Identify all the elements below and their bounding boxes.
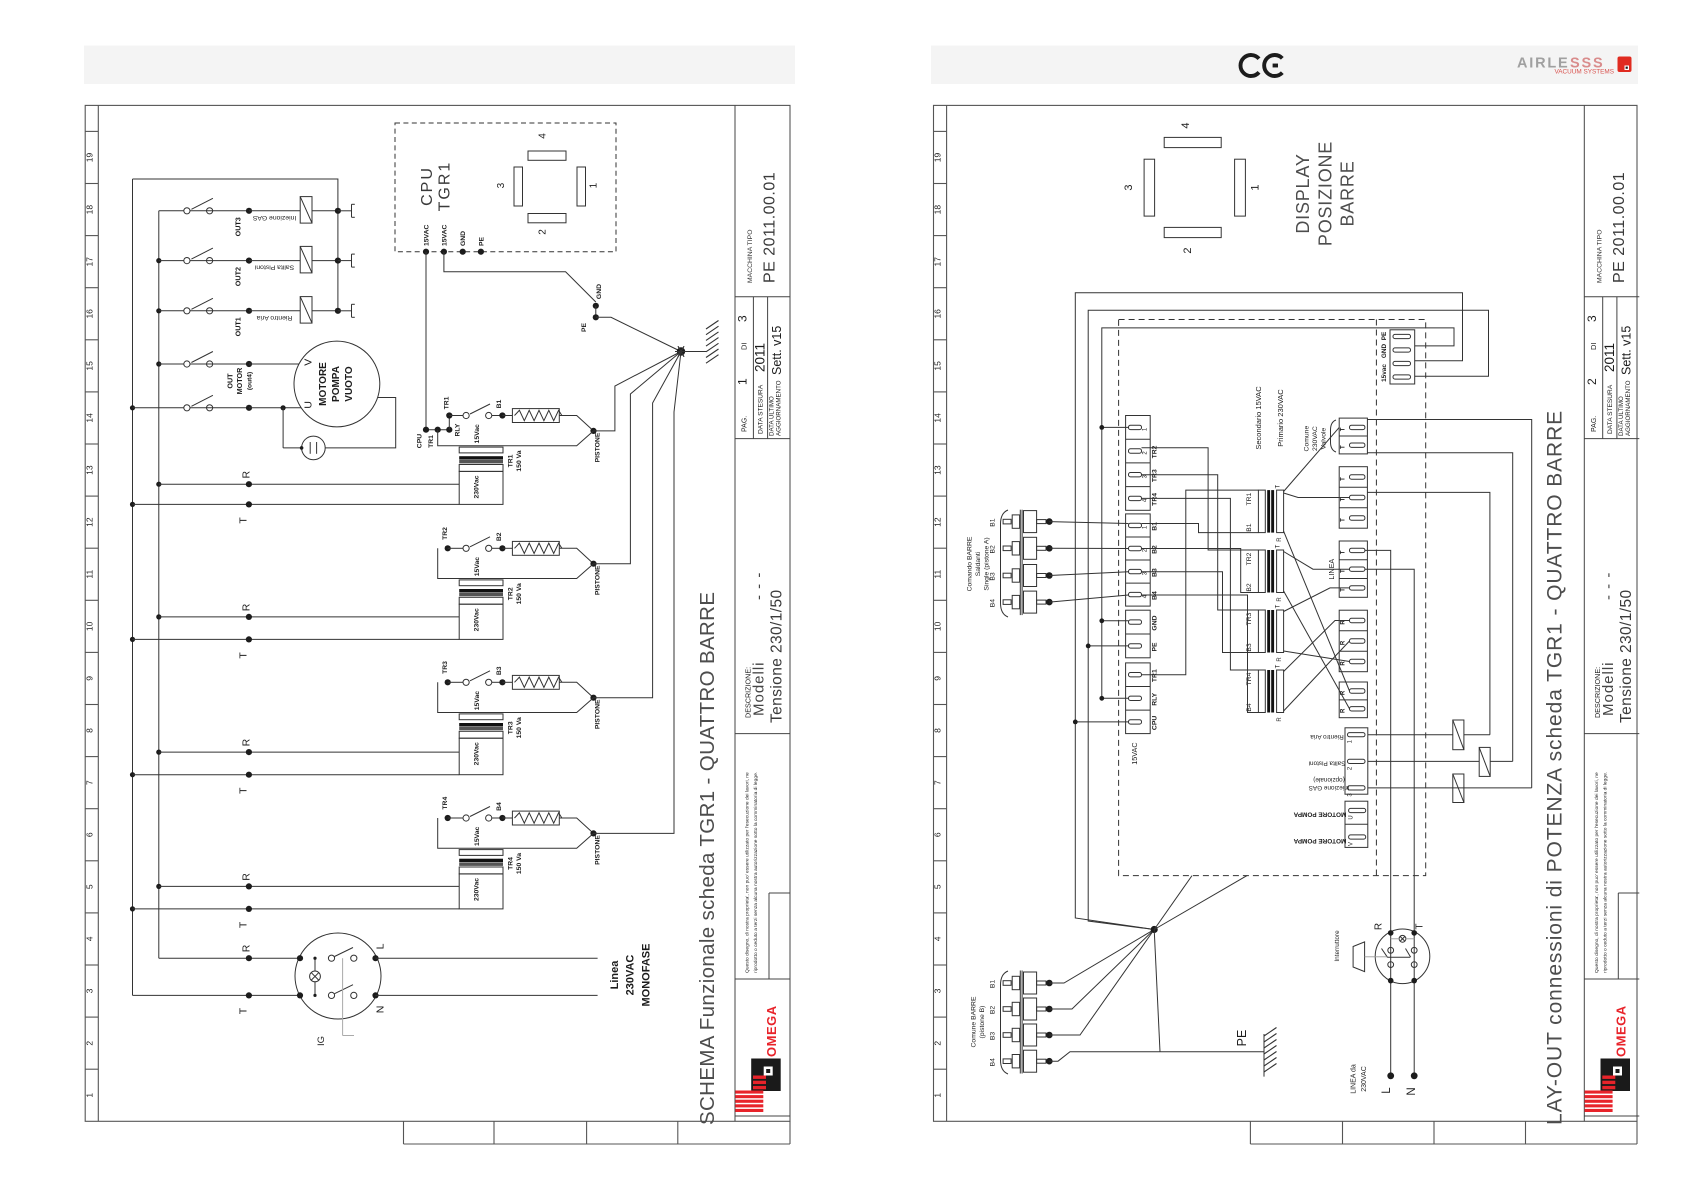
wire resistor to PISTONE node TR4 (559, 818, 593, 833)
svg-text:Linea: Linea (609, 960, 621, 990)
svg-text:15Vac: 15Vac (474, 691, 481, 710)
right page border frame (934, 105, 1638, 1121)
display segment 1 (right page) (1235, 159, 1246, 216)
svg-text:TR2: TR2 (507, 587, 514, 600)
svg-text:230Vac: 230Vac (473, 608, 480, 631)
svg-text:R: R (1341, 661, 1347, 666)
main switch IG (295, 933, 381, 1019)
svg-text:150 Va: 150 Va (516, 583, 523, 604)
svg-text:11: 11 (84, 570, 94, 579)
wire output 1 to fuse F1 (1368, 734, 1453, 736)
interruttore contacts (1388, 947, 1394, 953)
connector block TR2 TR3 TR4 (1126, 416, 1151, 511)
svg-text:T: T (1341, 550, 1347, 554)
node L (1387, 1072, 1394, 1079)
svg-text:U: U (303, 401, 315, 409)
title block disclaimer text (745, 772, 760, 973)
display segment 4 (left page) (528, 151, 566, 160)
transformer TR4 (right page) (1258, 670, 1265, 713)
relay switch TR1 15Vac (426, 429, 449, 431)
svg-text:15: 15 (84, 361, 94, 371)
svg-text:GND: GND (460, 231, 467, 246)
svg-text:MOTOR: MOTOR (235, 367, 244, 394)
valve connector group 4 (1339, 610, 1367, 672)
relay switch TR3 15Vac (445, 679, 451, 685)
svg-text:1: 1 (933, 1093, 943, 1098)
svg-text:TGR1: TGR1 (437, 161, 454, 212)
earth ground symbol (right page) (1263, 1034, 1265, 1077)
left page header bar (84, 46, 795, 85)
title block disclaimer text (1594, 772, 1609, 973)
svg-text:PE: PE (1152, 642, 1159, 652)
svg-text:DATA STESURA: DATA STESURA (758, 384, 765, 434)
svg-text:5: 5 (84, 884, 94, 889)
svg-text:4: 4 (933, 936, 943, 941)
node B2 (492, 547, 503, 549)
svg-text:B2: B2 (990, 1006, 997, 1015)
svg-text:Comune: Comune (1304, 426, 1311, 452)
svg-text:GND: GND (1152, 615, 1159, 630)
svg-text:13: 13 (933, 465, 943, 475)
svg-text:AGGIORNAMENTO: AGGIORNAMENTO (776, 380, 783, 436)
motor MOTORE POMPA VUOTO (294, 341, 380, 427)
svg-text:PE 2011.00.01: PE 2011.00.01 (762, 172, 779, 283)
transformer TR1 windings and core (459, 447, 503, 453)
switch row OUT2 (159, 260, 184, 262)
svg-text:OUT: OUT (226, 373, 235, 389)
wire R row to TR2 (159, 616, 459, 618)
wire resistor to PISTONE node TR2 (559, 548, 593, 563)
valve connector group 1 (Comune) (1339, 418, 1367, 454)
svg-text:B1: B1 (990, 518, 997, 527)
wire CPU cell to star (1075, 721, 1128, 723)
svg-text:GND: GND (1381, 344, 1388, 359)
switch row OUT MOTOR U (133, 407, 184, 409)
node N (1411, 1072, 1418, 1079)
wire L output (376, 957, 598, 959)
svg-text:2: 2 (538, 229, 549, 235)
wire pin1 to bus (1102, 426, 1129, 428)
wire TR1 T to valve group1 (1284, 427, 1340, 491)
svg-text:7: 7 (84, 780, 94, 785)
title block outer border (735, 105, 790, 1121)
svg-text:17: 17 (933, 257, 943, 267)
display segment 3 (right page) (1144, 159, 1155, 216)
wire B4 cell to transformer TR4 (1142, 595, 1259, 713)
svg-text:150 Va: 150 Va (516, 450, 523, 471)
wire TR4 R to valve group4 (1284, 641, 1350, 711)
wire TR4 pin to transformer TR4 (1142, 498, 1259, 670)
bus junction dots (130, 405, 135, 410)
svg-text:150 Va: 150 Va (516, 853, 523, 874)
connector MOTORE POMPA U V (1345, 801, 1368, 847)
svg-text:TR4: TR4 (1246, 672, 1253, 685)
transformer TR4 windings and core (459, 850, 503, 856)
relay coil Rientro Aria (249, 310, 300, 312)
svg-text:POMPA: POMPA (331, 366, 342, 402)
svg-text:OMEGA: OMEGA (764, 1005, 779, 1057)
svg-text:riprodotto o ceduto a terzi se: riprodotto o ceduto a terzi senza alcuna… (753, 772, 759, 973)
transformer TR2 windings and core (459, 580, 503, 586)
svg-text:N: N (375, 1006, 387, 1014)
svg-text:B4: B4 (990, 1058, 997, 1067)
svg-text:AGGIORNAMENTO: AGGIORNAMENTO (1625, 380, 1632, 436)
OMEGA logo (735, 1005, 780, 1112)
svg-text:TR2: TR2 (1246, 552, 1253, 565)
wire loop B star to 15vac connector (1088, 310, 1488, 929)
svg-text:DI: DI (740, 343, 749, 351)
CE mark (1240, 55, 1282, 76)
PISTONE node TR2 (590, 561, 596, 567)
relay switch TR4 15Vac (445, 815, 451, 821)
wire R row to IG switch (159, 957, 300, 959)
svg-text:15Vac: 15Vac (474, 424, 481, 443)
svg-text:B3: B3 (990, 572, 997, 581)
wire relay OUT2 to T bus (312, 260, 338, 262)
svg-text:PISTONE: PISTONE (595, 699, 602, 729)
svg-text:T: T (238, 787, 250, 794)
wire PE cell to star (1088, 645, 1128, 647)
svg-text:Saldanti: Saldanti (975, 551, 982, 576)
svg-text:150 Va: 150 Va (516, 717, 523, 738)
svg-text:4: 4 (1180, 123, 1192, 129)
svg-text:Tensione 230/1/50: Tensione 230/1/50 (1618, 590, 1635, 724)
svg-text:R: R (1277, 537, 1283, 542)
svg-text:MACCHINA TIPO: MACCHINA TIPO (1596, 229, 1603, 283)
connector block TR1 RLY CPU (1126, 663, 1151, 734)
svg-text:R: R (241, 738, 253, 746)
svg-text:19: 19 (84, 153, 94, 163)
svg-text:TR1: TR1 (1152, 669, 1159, 682)
transformer TR3 windings and core (459, 714, 503, 720)
svg-text:2: 2 (1182, 247, 1194, 253)
svg-text:OUT2: OUT2 (234, 267, 243, 286)
svg-text:MOTORE POMPA: MOTORE POMPA (1293, 811, 1346, 818)
wire R row to TR4 (159, 885, 459, 887)
wires plugs A to connector B1-B4 (1049, 522, 1128, 524)
svg-text:Questo disegno, di nostra prop: Questo disegno, di nostra proprieta', no… (745, 772, 751, 973)
svg-text:LINEA da: LINEA da (1351, 1064, 1358, 1094)
svg-text:TR2: TR2 (442, 527, 449, 540)
wire: top bus line (133, 179, 338, 311)
svg-text:CPU: CPU (417, 434, 424, 448)
svg-text:B3: B3 (990, 1032, 997, 1041)
wire T row to TR3 (133, 774, 460, 776)
fuse F3 (1453, 774, 1464, 803)
svg-text:PISTONE: PISTONE (595, 432, 602, 462)
svg-text:SCHEMA Funzionale scheda TG: SCHEMA Funzionale scheda TGR1 - QUATTRO … (696, 592, 719, 1125)
T terminal OUT1 (338, 310, 352, 312)
connector 15vac GND PE (1390, 330, 1415, 384)
svg-text:B3: B3 (1246, 643, 1253, 652)
wire B1 cell to transformer TR1 (1142, 524, 1259, 533)
wire TR3 R to valve group4 (1284, 651, 1350, 662)
svg-text:B3: B3 (1152, 568, 1159, 577)
svg-text:TR4: TR4 (507, 857, 514, 870)
svg-text:IG: IG (316, 1036, 327, 1046)
wire PISTONE TR3 riser to ground star (594, 352, 682, 698)
wire TR2 pin to transformer TR2 (1142, 448, 1259, 550)
svg-text:U: U (1349, 815, 1355, 819)
TGR1 board dashed outline (1119, 320, 1426, 876)
svg-text:10: 10 (933, 621, 943, 631)
wire valve group2 top to fuse loop (1367, 420, 1531, 788)
svg-text:- - -: - - - (1600, 572, 1617, 600)
display segment 2 (right page) (1164, 227, 1221, 237)
plug group brace (1001, 510, 1009, 617)
display segment 4 (right page) (1164, 137, 1221, 147)
svg-text:R: R (1277, 657, 1283, 662)
relay switch TR2 15Vac (445, 545, 451, 551)
wires board bottom to star (1154, 876, 1192, 930)
svg-text:Comando BARRE: Comando BARRE (967, 536, 974, 591)
wire output 2 to fuse F2 (1368, 760, 1479, 762)
valve connector group 2 (1339, 467, 1367, 529)
svg-text:17: 17 (84, 257, 94, 267)
svg-text:4: 4 (84, 936, 94, 941)
svg-text:Rientro Aria: Rientro Aria (1310, 733, 1344, 740)
svg-text:MACCHINA TIPO: MACCHINA TIPO (747, 229, 754, 283)
svg-text:3: 3 (1585, 315, 1599, 322)
svg-text:B2: B2 (990, 545, 997, 554)
svg-text:PE: PE (478, 236, 485, 246)
svg-text:B3: B3 (496, 666, 503, 675)
svg-text:riprodotto o ceduto a terzi se: riprodotto o ceduto a terzi senza alcuna… (1602, 772, 1608, 973)
svg-text:Secondario 15VAC: Secondario 15VAC (1254, 386, 1263, 450)
svg-text:LAY-OUT connessioni di POTE: LAY-OUT connessioni di POTENZA scheda TG… (1543, 410, 1566, 1125)
svg-text:3: 3 (933, 988, 943, 993)
svg-text:15VAC: 15VAC (424, 225, 431, 246)
heater resistor TR1 (502, 415, 512, 417)
T terminal OUT2 (338, 260, 352, 262)
svg-text:T: T (1276, 484, 1282, 488)
wire resistor to PISTONE node TR1 (559, 416, 593, 431)
svg-text:2011: 2011 (753, 343, 768, 372)
svg-text:L: L (375, 943, 387, 949)
title block DESCRIZIONE fields (1593, 572, 1635, 723)
svg-text:Sett. v15: Sett. v15 (770, 326, 784, 375)
left page border frame (85, 105, 790, 1121)
svg-text:TR1: TR1 (507, 454, 514, 467)
svg-text:R: R (241, 470, 253, 478)
svg-text:8: 8 (933, 728, 943, 733)
fuse F1 (1453, 720, 1464, 750)
svg-text:230Vac: 230Vac (473, 475, 480, 498)
svg-text:R: R (241, 603, 253, 611)
svg-text:2011: 2011 (1602, 343, 1617, 372)
svg-text:14: 14 (84, 413, 94, 423)
svg-text:230VAC: 230VAC (1361, 1066, 1368, 1092)
svg-text:PISTONE: PISTONE (595, 835, 602, 865)
svg-text:R: R (1374, 923, 1385, 930)
wire 15VAC-2 to GND node (444, 252, 596, 302)
relay coil Iniezione GAS (249, 210, 300, 212)
svg-text:18: 18 (84, 205, 94, 215)
plug group brace (1001, 971, 1009, 1074)
svg-text:RLY: RLY (455, 423, 462, 436)
IG lamp (310, 971, 321, 982)
svg-text:2: 2 (933, 1041, 943, 1046)
wires plugs B to star node (1049, 930, 1154, 984)
wire R row to TR1 (159, 483, 459, 485)
svg-text:T: T (1341, 427, 1347, 431)
wire to motor V terminal (249, 363, 299, 365)
right page header bar (931, 46, 1638, 85)
switch row OUT3 (159, 210, 184, 212)
svg-text:TR3: TR3 (442, 661, 449, 674)
svg-text:16: 16 (933, 309, 943, 319)
wire T row to TR1 (133, 503, 460, 505)
svg-text:B4: B4 (990, 599, 997, 608)
svg-text:BARRE: BARRE (1337, 160, 1357, 226)
svg-text:14: 14 (933, 413, 943, 423)
svg-text:TR4: TR4 (1152, 493, 1159, 506)
svg-text:R: R (1277, 717, 1283, 722)
wire PISTONE TR4 riser to ground star (594, 352, 682, 834)
svg-text:Questo disegno, di nostra prop: Questo disegno, di nostra proprieta', no… (1594, 772, 1600, 973)
transformer TR3 primary box 230Vac (459, 738, 503, 775)
svg-text:Iniezione GAS: Iniezione GAS (1309, 784, 1350, 791)
node GND (593, 303, 599, 309)
svg-text:13: 13 (84, 465, 94, 475)
capacitor (282, 408, 284, 448)
wire TR1 cell to transformer TR1 (1142, 490, 1259, 675)
svg-text:230Vac: 230Vac (473, 742, 480, 765)
fuse F2 (1479, 747, 1490, 776)
svg-text:Salita Pistoni: Salita Pistoni (254, 264, 294, 271)
svg-text:Primario 230VAC: Primario 230VAC (1276, 389, 1285, 447)
wire output 3 to fuse F3 (1368, 787, 1532, 789)
wire TR3 pin to transformer TR3 (1142, 475, 1259, 610)
heater resistor TR3 (502, 681, 512, 683)
title block MACCHINA TIPO box (741, 112, 785, 287)
title block MACCHINA TIPO box (1590, 112, 1634, 287)
svg-text:T: T (238, 921, 250, 928)
svg-text:B2: B2 (1246, 583, 1253, 592)
wire PE to ground star (596, 317, 681, 351)
wire TR3 T to valve (1284, 588, 1350, 612)
svg-text:230Vac: 230Vac (473, 878, 480, 901)
node PE (595, 306, 597, 318)
transformer TR4 primary box 230Vac (459, 874, 503, 909)
svg-text:1: 1 (589, 182, 600, 188)
svg-text:Comune BARRE: Comune BARRE (971, 996, 978, 1047)
svg-text:TR1: TR1 (428, 435, 435, 448)
svg-text:B1: B1 (1246, 523, 1253, 532)
svg-text:VACUUM SYSTEMS: VACUUM SYSTEMS (1554, 69, 1614, 76)
svg-text:MONOFASE: MONOFASE (640, 944, 652, 1007)
svg-text:POSIZIONE: POSIZIONE (1316, 141, 1336, 246)
svg-text:9: 9 (84, 676, 94, 681)
svg-text:DATA ULTIMO: DATA ULTIMO (769, 396, 776, 436)
svg-text:R: R (1277, 597, 1283, 602)
svg-text:12: 12 (84, 517, 94, 527)
wire LINEA to interruttore T (1365, 569, 1414, 932)
wire RLY cell to star (1102, 697, 1129, 699)
svg-text:18: 18 (933, 205, 943, 215)
svg-text:12: 12 (933, 517, 943, 527)
display segment 2 (left page) (528, 214, 566, 223)
switch row OUT MOTOR V (159, 363, 184, 365)
svg-text:6: 6 (933, 832, 943, 837)
wire B3 cell to transformer TR3 (1142, 572, 1259, 653)
svg-text:R: R (241, 873, 253, 881)
wire T row to IG switch (133, 994, 301, 996)
svg-text:T: T (1341, 518, 1347, 522)
svg-text:10: 10 (84, 621, 94, 631)
svg-text:B2: B2 (1152, 545, 1159, 554)
svg-text:230VAC: 230VAC (624, 955, 636, 996)
earth ground symbol (left page) (685, 351, 706, 353)
AIRLESS vacuum systems logo (1517, 56, 1632, 76)
transformer TR1 primary box 230Vac (459, 471, 503, 504)
svg-text:T: T (1341, 445, 1347, 449)
svg-text:R: R (241, 944, 253, 952)
heater resistor TR2 (502, 547, 512, 549)
wire T row to TR4 (133, 908, 460, 910)
svg-text:R: R (1341, 708, 1347, 713)
wire 15VAC to TR1 node (425, 252, 427, 430)
svg-text:TR3: TR3 (1152, 469, 1159, 482)
svg-text:MOTORE: MOTORE (318, 362, 329, 406)
svg-text:DISPLAY: DISPLAY (1293, 153, 1313, 233)
secondary winding wire TR3 (438, 682, 594, 712)
wire N output (376, 994, 598, 996)
svg-text:N: N (1406, 1087, 1418, 1095)
svg-text:TR3: TR3 (507, 721, 514, 734)
title block PAG / DATA fields (1585, 315, 1634, 436)
connector block B1-B4 (1126, 514, 1151, 606)
plug mounting plate (1019, 510, 1021, 615)
svg-text:PE: PE (581, 323, 588, 333)
svg-text:(pistone B): (pistone B) (979, 1006, 986, 1039)
switch row OUT1 (159, 310, 184, 312)
wire TR2 T to valve (1284, 552, 1350, 570)
node B4 (492, 817, 503, 819)
svg-text:3: 3 (736, 315, 750, 322)
valve connector group 5 (1339, 682, 1367, 718)
secondary winding wire TR2 (438, 548, 594, 578)
wire relay OUT3 to T bus (312, 210, 338, 212)
wire to motor U terminal (249, 407, 301, 409)
title block PAG / DATA fields (736, 315, 785, 436)
svg-text:DI: DI (1589, 343, 1598, 351)
svg-text:15VAC: 15VAC (1130, 742, 1139, 764)
svg-text:3: 3 (84, 988, 94, 993)
svg-text:B2: B2 (496, 532, 503, 541)
svg-text:Modelli: Modelli (751, 661, 768, 716)
transformer TR2 (right page) (1258, 550, 1265, 593)
wire PISTONE TR2 riser to ground star (594, 352, 682, 564)
svg-text:Iniezione GAS: Iniezione GAS (252, 214, 296, 221)
svg-text:CPU: CPU (419, 166, 436, 206)
wire: vertical bus T (left) (132, 179, 134, 995)
interruttore knob (1353, 942, 1365, 972)
svg-text:3: 3 (496, 182, 507, 188)
svg-text:GND: GND (596, 284, 603, 299)
output connector 1 2 3 (1345, 728, 1368, 794)
display segment 3 (left page) (514, 167, 523, 206)
svg-text:1: 1 (84, 1093, 94, 1098)
svg-text:B4: B4 (496, 802, 503, 811)
svg-text:- - -: - - - (751, 572, 768, 600)
svg-text:L: L (1381, 1087, 1393, 1094)
svg-text:Sett. v15: Sett. v15 (1619, 326, 1633, 375)
svg-text:B1: B1 (496, 399, 503, 408)
left page margin scale numbers (84, 153, 94, 1098)
interruttore switch circle (1375, 929, 1430, 984)
svg-text:B4: B4 (1246, 703, 1253, 712)
